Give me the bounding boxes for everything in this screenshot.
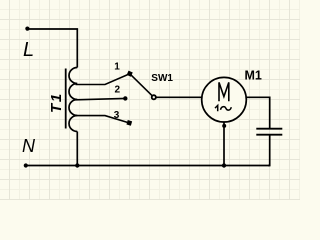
wire switch to motor (156, 96, 201, 98)
svg-text:N: N (22, 136, 36, 156)
capacitor C plates (256, 129, 282, 135)
terminal N dot (24, 163, 28, 167)
transformer core bar (65, 69, 67, 129)
tap 3 contact (126, 120, 132, 126)
wire transformer bottom to N rail (76, 132, 78, 166)
svg-text:2: 2 (115, 85, 121, 96)
tap 1 contact (127, 71, 133, 77)
svg-text:M1: M1 (245, 69, 262, 83)
motor tilde (221, 107, 232, 110)
svg-text:3: 3 (114, 110, 120, 121)
N rail wire (27, 165, 270, 167)
wire motor to capacitor top (246, 97, 269, 128)
switch SW1 blade (130, 74, 152, 96)
tap 2 wire (76, 98, 126, 99)
svg-text:L: L (23, 39, 34, 61)
wire L to transformer top (28, 29, 77, 68)
transformer T1 winding (69, 68, 77, 132)
motor letter M (219, 82, 229, 101)
svg-text:1: 1 (114, 62, 120, 73)
tap 1 wire (76, 74, 130, 85)
svg-text:SW1: SW1 (151, 73, 173, 84)
terminal L dot (25, 27, 29, 31)
junction dot transformer/N rail (75, 163, 79, 167)
tap 3 wire (76, 116, 129, 123)
motor text 1 (215, 105, 218, 111)
switch SW1 pole circle (152, 95, 156, 99)
tap 2 contact (123, 96, 127, 100)
motor M1 circle (202, 77, 247, 122)
motor bottom pin (223, 122, 225, 166)
svg-text:T1: T1 (48, 92, 65, 113)
wire capacitor bottom to N rail (268, 136, 270, 166)
motor pin dot (222, 124, 226, 128)
junction dot motor/N rail (222, 163, 226, 167)
